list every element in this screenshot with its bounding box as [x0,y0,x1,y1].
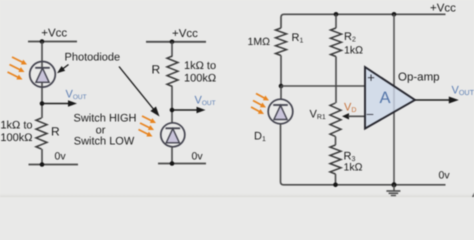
annotation Switch HIGH or Switch LOW [74,112,137,147]
junction: node A (R1 / D1 / op-amp +) [279,84,284,89]
junction: rail to R2 [334,12,339,17]
svg-text:1kΩ: 1kΩ [344,161,363,173]
svg-text:+Vcc: +Vcc [430,2,456,14]
svg-text:0v: 0v [192,150,204,162]
leader arrow to photodiode (circuit 1) [57,65,69,74]
label VOUT (circuit 1) [66,88,87,101]
label 0v (circuit 2) [192,150,204,162]
wiper arrow of VR1 (to op-amp inverting input) [342,113,365,119]
svg-text:1kΩ: 1kΩ [344,45,363,57]
node VOUT (circuit 2) [170,108,175,113]
wire: R1 to node A [280,56,282,87]
label R2 [344,31,356,44]
svg-text:Switch HIGH: Switch HIGH [74,112,137,124]
label +Vcc (circuit 3) [430,2,456,14]
wire: rail to R2 [335,14,337,28]
junction: Vcc node (circuit 1) [40,39,45,44]
VOUT arrow (op-amp output) [415,97,459,104]
svg-text:–: – [367,107,374,121]
photodiode D1 [268,99,293,124]
svg-text:or: or [96,124,106,136]
wire: lower branch to 0v (circuit 2) [171,147,173,164]
wire: D1 to 0v rail [281,124,284,185]
label +Vcc (circuit 2) [172,28,198,40]
junction: 0v node (circuit 1) [40,162,45,167]
svg-text:1kΩ to: 1kΩ to [0,120,32,132]
svg-text:1MΩ: 1MΩ [248,36,271,48]
label VOUT (circuit 3) [452,85,474,98]
label R (circuit 1) [51,124,60,138]
resistor R2 [331,28,342,57]
label 0v (circuit 3) [439,170,451,182]
value label 1MΩ [248,36,271,48]
resistor R (circuit 2) [167,56,178,87]
wire: node A to op-amp non-inverting input [281,85,365,87]
label Op-amp [398,71,440,83]
wire: 0v rail (circuit 1) [29,164,79,166]
resistor R (circuit 1) [36,118,47,149]
junction: rail to supply centre line [392,12,397,17]
junction: R3 to 0v rail [333,183,338,188]
value label 1kΩ (R3) [344,161,363,173]
wire: node A to photodiode D1 [280,86,282,100]
svg-text:R: R [51,124,60,138]
value label 1kΩ to 100kΩ (circuit 2) [184,60,216,84]
label VR1 [310,108,326,121]
svg-text:Photodiode: Photodiode [65,51,121,63]
leader arrow to photodiode (circuit 2) [119,67,160,117]
junction: ground node [392,182,397,187]
op-amp A [365,67,415,129]
svg-text:0v: 0v [439,170,451,182]
photodiode (circuit 2) [161,123,185,147]
light arrows (D1) [251,94,269,115]
label +Vcc (circuit 1) [41,28,67,40]
node VOUT (circuit 1) [40,101,45,106]
photodiode (circuit 1) [30,62,56,88]
wire: VR1 to R3 [335,137,337,146]
label 0v (circuit 1) [55,150,67,162]
wire: 0v rail (circuit 2) [158,163,206,165]
svg-text:0v: 0v [55,150,67,162]
svg-text:R: R [152,62,161,76]
wire: vertical branch (circuit 1) [41,42,43,119]
wire: R2 to VR1 [335,57,337,104]
svg-text:100kΩ: 100kΩ [184,72,216,84]
label R1 [292,32,304,45]
resistor R3 [330,145,341,174]
value label 1kΩ to 100kΩ (circuit 1) [0,120,32,144]
light arrows (circuit 2) [139,116,157,137]
wire: lower branch to 0v (circuit 1) [41,149,43,165]
VOUT arrow (circuit 1) [42,100,77,107]
wire: vertical branch top (circuit 2) [171,42,173,56]
junction: 0v node (circuit 2) [170,161,175,166]
resistor R1 [276,28,287,56]
svg-text:A: A [379,89,390,107]
wire: +Vcc supply rail (circuit 1) [28,41,77,43]
svg-text:100kΩ: 100kΩ [0,132,32,144]
wire: +Vcc supply rail (circuit 3) [281,14,446,28]
label D1 [254,131,266,144]
svg-text:1kΩ to: 1kΩ to [184,60,216,72]
label VD (wiper voltage) [344,101,356,114]
light arrows (circuit 1) [8,57,28,80]
wire: 0v rail (circuit 3) [284,184,446,186]
label R3 [344,150,356,163]
svg-text:Switch LOW: Switch LOW [74,136,135,148]
label VOUT (circuit 2) [195,94,216,107]
VOUT arrow (circuit 2) [172,107,206,114]
wire: supply centre line (passes behind op-amp) [393,14,395,185]
label Photodiode [65,51,121,63]
wire: middle branch (circuit 2) [171,87,173,124]
svg-text:Op-amp: Op-amp [398,71,440,83]
value label 1kΩ (R2) [344,45,363,57]
wire: +Vcc supply rail (circuit 2) [146,41,206,43]
ground symbol [386,185,400,196]
svg-text:+Vcc: +Vcc [41,28,67,40]
label R (circuit 2) [152,62,161,76]
svg-text:+Vcc: +Vcc [172,28,198,40]
potentiometer VR1 [330,103,341,137]
wire: R3 to 0v rail [335,174,337,185]
svg-text:+: + [367,70,375,85]
junction: Vcc node (circuit 2) [170,40,175,45]
